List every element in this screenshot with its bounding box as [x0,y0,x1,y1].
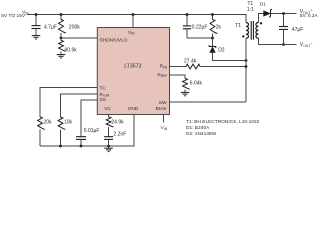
svg-text:27.4k: 27.4k [184,58,197,64]
svg-text:SHDN/UVLO: SHDN/UVLO [100,38,128,44]
svg-text:SW: SW [159,100,167,106]
svg-text:D2: 1N4148W: D2: 1N4148W [186,131,217,137]
svg-text:5V, 0.2A: 5V, 0.2A [300,13,319,19]
svg-text:LT3573: LT3573 [124,64,141,70]
svg-text:0.22µF: 0.22µF [192,25,208,31]
svg-text:D1: B240A: D1: B240A [186,125,210,131]
svg-text:0.01µF: 0.01µF [84,128,100,134]
svg-text:T1: T1 [247,1,253,7]
svg-text:SS: SS [100,97,106,103]
svg-text:T1: T1 [235,23,241,29]
svg-text:10k: 10k [64,119,73,125]
svg-text:2k: 2k [216,24,222,30]
svg-text:24.9k: 24.9k [111,119,124,125]
svg-text:4.7µF: 4.7µF [44,25,57,31]
svg-text:GND: GND [128,106,139,112]
svg-text:D2: D2 [218,47,225,53]
svg-text:6.04k: 6.04k [190,80,203,86]
svg-text:5V TO 15V: 5V TO 15V [1,13,26,19]
svg-text:90.9k: 90.9k [65,48,78,54]
svg-text:1:1: 1:1 [247,7,254,13]
svg-text:200k: 200k [69,25,80,31]
svg-text:20k: 20k [43,119,52,125]
svg-text:TC: TC [100,85,107,91]
svg-text:2.2nF: 2.2nF [114,131,127,137]
svg-text:47µF: 47µF [292,27,304,33]
svg-text:BIAS: BIAS [156,106,167,112]
svg-text:D1: D1 [260,2,266,8]
svg-text:VC: VC [104,106,111,112]
svg-text:T1: BH ELECTRONICS, L10-1022: T1: BH ELECTRONICS, L10-1022 [186,119,260,125]
